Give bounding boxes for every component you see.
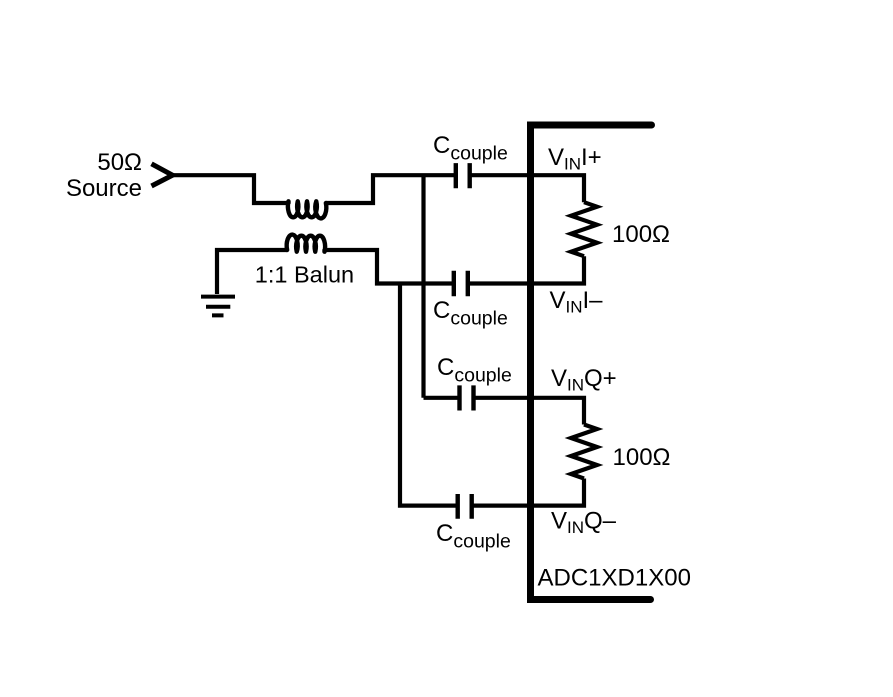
svg-text:1:1 Balun: 1:1 Balun bbox=[255, 262, 354, 288]
svg-text:Ccouple: Ccouple bbox=[433, 297, 508, 330]
wire: C1 to VINI+ pin and R1 top bbox=[470, 175, 584, 202]
resistor R1 100ohm bbox=[571, 202, 597, 256]
capacitor C2 plates bbox=[454, 271, 468, 296]
wire: branch I+ node down to Q+ bbox=[421, 175, 425, 398]
wire: R2 bottom to VINQ- pin bbox=[472, 479, 584, 506]
ADC1XD1X00 package boundary bbox=[531, 125, 652, 600]
source arrow bbox=[152, 164, 173, 186]
svg-text:Ccouple: Ccouple bbox=[433, 132, 508, 165]
resistor R2 100ohm bbox=[571, 425, 597, 479]
inductor L2 secondary winding bbox=[287, 235, 326, 252]
wire: R1 bottom to VINI- pin bbox=[468, 256, 584, 283]
svg-text:100Ω: 100Ω bbox=[612, 221, 670, 248]
wire: secondary to C2 bbox=[325, 250, 454, 284]
capacitor C1 plates bbox=[456, 163, 470, 188]
wire: C3 to VINQ+ pin and R2 top bbox=[474, 398, 585, 425]
svg-text:Source: Source bbox=[66, 175, 142, 202]
svg-text:Ccouple: Ccouple bbox=[436, 520, 511, 553]
wire: Q+ line to C3 bbox=[424, 396, 460, 400]
svg-text:VINQ–: VINQ– bbox=[551, 508, 617, 538]
svg-text:100Ω: 100Ω bbox=[613, 444, 671, 471]
wire: secondary left to ground bbox=[217, 250, 287, 294]
svg-text:VINI+: VINI+ bbox=[548, 144, 602, 174]
svg-text:VINI–: VINI– bbox=[550, 287, 604, 317]
inductor L1 primary winding bbox=[287, 201, 326, 218]
svg-text:ADC1XD1X00: ADC1XD1X00 bbox=[538, 565, 691, 592]
svg-text:50Ω: 50Ω bbox=[97, 149, 142, 176]
ground bbox=[201, 297, 235, 316]
capacitor C4 plates bbox=[458, 494, 472, 519]
capacitor C3 plates bbox=[460, 385, 474, 410]
wire: source to primary bbox=[171, 175, 288, 203]
wire: primary to Ccouple C1 bbox=[326, 175, 456, 203]
wire: branch I- node down to Q- bbox=[400, 284, 458, 506]
svg-text:VINQ+: VINQ+ bbox=[551, 365, 617, 395]
svg-text:Ccouple: Ccouple bbox=[437, 354, 512, 387]
label 50 ohm Source bbox=[66, 149, 142, 202]
